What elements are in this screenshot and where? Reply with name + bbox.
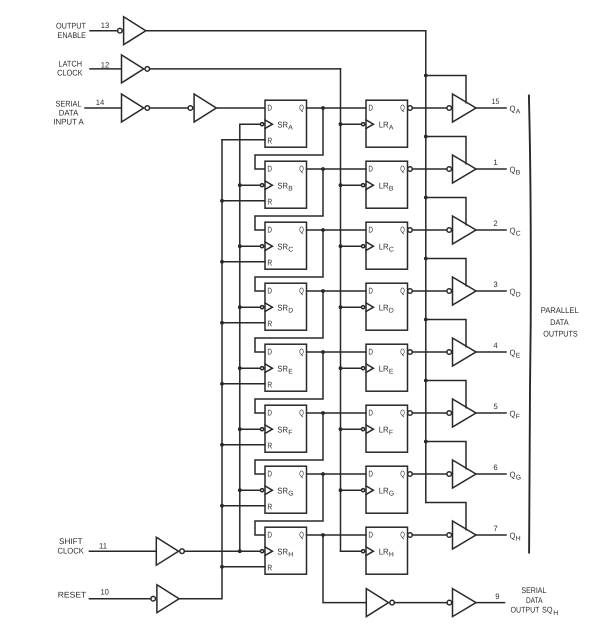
svg-text:SR: SR bbox=[277, 485, 288, 495]
wire clock bus to SRF clock bbox=[240, 428, 260, 430]
junction OE bus row E bbox=[424, 318, 428, 322]
node QH bbox=[510, 530, 521, 542]
svg-text:Q: Q bbox=[400, 286, 405, 296]
brace parallel data outputs bbox=[529, 96, 531, 553]
wire reset bus to SRA R bbox=[222, 139, 265, 141]
svg-text:OUTPUT: OUTPUT bbox=[511, 606, 540, 615]
node QA bbox=[510, 103, 521, 115]
wire OE enable to buffer U13 bbox=[426, 320, 466, 347]
junction latch bus row G bbox=[339, 488, 343, 492]
svg-text:Q: Q bbox=[299, 286, 304, 296]
junction OE bus row A bbox=[424, 74, 428, 78]
wire SRD Q to LRD D bbox=[307, 290, 367, 292]
junction latch bus row E bbox=[339, 366, 343, 370]
inverter U2 (latch clock) bbox=[122, 55, 150, 83]
wire LRD Q to buffer U12 bbox=[412, 290, 446, 292]
svg-text:D: D bbox=[516, 292, 521, 299]
pin 6 bbox=[493, 463, 497, 472]
svg-text:LR: LR bbox=[379, 363, 389, 373]
svg-text:E: E bbox=[389, 369, 394, 376]
wire reset bus to SRG R bbox=[222, 505, 265, 507]
svg-text:RESET: RESET bbox=[58, 590, 87, 599]
wire U4 output to SRA D bbox=[216, 107, 265, 109]
svg-text:LR: LR bbox=[379, 546, 389, 556]
svg-text:B: B bbox=[516, 170, 521, 177]
svg-text:Q: Q bbox=[400, 225, 405, 235]
wire OE enable to buffer U12 bbox=[426, 259, 466, 286]
svg-text:D: D bbox=[368, 286, 373, 296]
wire SRF Q to LRF D bbox=[307, 412, 367, 414]
flip-flop LRB bbox=[362, 161, 408, 208]
junction SRH Q node bbox=[321, 533, 325, 537]
svg-text:H: H bbox=[516, 536, 521, 543]
output bubble LRF Q bbox=[408, 411, 413, 416]
pin 1 bbox=[493, 158, 497, 167]
svg-text:14: 14 bbox=[96, 98, 105, 107]
junction latch bus row C bbox=[339, 244, 343, 248]
svg-text:A: A bbox=[516, 109, 521, 116]
wire QE output pin bbox=[476, 351, 506, 353]
wire OE enable to buffer U14 bbox=[426, 381, 466, 408]
output bubble LRE Q bbox=[408, 350, 413, 355]
svg-text:2: 2 bbox=[493, 219, 497, 228]
wire U3 to U4 bbox=[150, 107, 189, 109]
wire QA output pin bbox=[476, 107, 506, 109]
svg-text:H: H bbox=[553, 610, 558, 617]
wire QD output pin bbox=[476, 290, 506, 292]
wire latch bus to LRA clock bbox=[341, 123, 361, 125]
pin 2 bbox=[493, 219, 497, 228]
wire SRH Q to serial output bbox=[323, 535, 366, 603]
junction SRA Q node bbox=[321, 106, 325, 110]
junction clock bus row B bbox=[238, 183, 242, 187]
wire OE enable to buffer U11 bbox=[426, 198, 466, 225]
output bubble LRC Q bbox=[408, 228, 413, 233]
wire pin11 to U5 bbox=[89, 550, 156, 552]
svg-text:Q: Q bbox=[400, 164, 405, 174]
junction reset bus row H bbox=[220, 565, 224, 569]
svg-text:13: 13 bbox=[101, 21, 110, 30]
output bubble LRG Q bbox=[408, 472, 413, 477]
wire QH output pin bbox=[476, 534, 506, 536]
svg-text:C: C bbox=[288, 247, 293, 254]
svg-text:PARALLEL: PARALLEL bbox=[541, 306, 579, 315]
svg-text:D: D bbox=[389, 308, 394, 315]
svg-text:D: D bbox=[267, 530, 272, 540]
wire SRB Q to SRC D jog bbox=[255, 169, 323, 230]
label SERIAL DATA OUTPUT SQH bbox=[511, 586, 559, 617]
pin 9 bbox=[495, 592, 499, 601]
svg-text:D: D bbox=[368, 103, 373, 113]
flip-flop SRH bbox=[261, 527, 307, 574]
svg-text:D: D bbox=[368, 530, 373, 540]
wire U5 output to SRH clock bbox=[184, 550, 260, 552]
svg-text:9: 9 bbox=[495, 592, 499, 601]
wire U1 output to OE bus bbox=[146, 30, 426, 32]
pin 10 bbox=[100, 588, 109, 597]
wire OE bus vertical bbox=[425, 31, 427, 503]
svg-text:LR: LR bbox=[379, 180, 389, 190]
svg-text:SR: SR bbox=[277, 241, 288, 251]
svg-text:E: E bbox=[288, 369, 293, 376]
svg-text:D: D bbox=[368, 469, 373, 479]
wire QC output pin bbox=[476, 229, 506, 231]
junction reset bus row G bbox=[220, 504, 224, 508]
wire latch clock bus vertical bbox=[340, 69, 342, 551]
wire latch bus to LRE clock bbox=[341, 367, 361, 369]
flip-flop LRH bbox=[362, 527, 408, 574]
svg-text:C: C bbox=[516, 231, 521, 238]
flip-flop LRA bbox=[362, 100, 408, 147]
junction clock bus row E bbox=[238, 366, 242, 370]
svg-text:D: D bbox=[368, 347, 373, 357]
svg-text:D: D bbox=[267, 225, 272, 235]
junction clock bus row G bbox=[238, 488, 242, 492]
wire reset bus to SRB R bbox=[222, 200, 265, 202]
label PARALLEL DATA OUTPUTS bbox=[541, 306, 579, 338]
junction clock bus row C bbox=[238, 244, 242, 248]
pin 13 bbox=[101, 21, 110, 30]
svg-text:7: 7 bbox=[493, 524, 497, 533]
label RESET bbox=[58, 590, 87, 599]
junction reset bus row B bbox=[220, 199, 224, 203]
tri-state buffer U13 (QE) bbox=[447, 338, 476, 366]
flip-flop SRG bbox=[261, 466, 307, 513]
svg-text:Q: Q bbox=[299, 530, 304, 540]
pin 12 bbox=[101, 60, 110, 69]
svg-text:D: D bbox=[267, 408, 272, 418]
svg-text:DATA: DATA bbox=[550, 318, 569, 327]
svg-text:12: 12 bbox=[101, 60, 110, 69]
wire U6 output to reset bus bbox=[179, 140, 222, 599]
tri-state buffer U9 (QA) bbox=[447, 94, 476, 122]
junction SRF Q node bbox=[321, 411, 325, 415]
wire clock bus to SRB clock bbox=[240, 184, 260, 186]
wire QF output pin bbox=[476, 412, 506, 414]
flip-flop SRC bbox=[261, 222, 307, 269]
flip-flop LRG bbox=[362, 466, 408, 513]
svg-text:D: D bbox=[267, 164, 272, 174]
svg-text:H: H bbox=[389, 552, 394, 559]
svg-text:LR: LR bbox=[379, 119, 389, 129]
junction shift clock bus bbox=[238, 549, 242, 553]
junction clock bus row D bbox=[238, 305, 242, 309]
svg-text:G: G bbox=[288, 491, 293, 498]
svg-text:Q: Q bbox=[400, 469, 405, 479]
pin 4 bbox=[493, 341, 498, 350]
wire SRH Q to LRH D bbox=[307, 534, 367, 536]
flip-flop SRB bbox=[261, 161, 307, 208]
wire SRC Q to LRC D bbox=[307, 229, 367, 231]
junction SRB Q node bbox=[321, 167, 325, 171]
svg-text:A: A bbox=[288, 125, 293, 132]
wire SRG Q to LRG D bbox=[307, 473, 367, 475]
wire clock bus to SRC clock bbox=[240, 245, 260, 247]
pin 11 bbox=[99, 541, 107, 550]
svg-text:10: 10 bbox=[100, 588, 109, 597]
junction latch bus row B bbox=[339, 183, 343, 187]
svg-text:R: R bbox=[267, 440, 272, 450]
svg-text:D: D bbox=[267, 469, 272, 479]
svg-text:R: R bbox=[267, 379, 272, 389]
inverter U6 (reset) bbox=[151, 585, 179, 613]
svg-text:1: 1 bbox=[493, 158, 497, 167]
svg-text:R: R bbox=[267, 196, 272, 206]
pin 14 bbox=[96, 98, 105, 107]
junction SRC Q node bbox=[321, 228, 325, 232]
wire LRB Q to buffer U10 bbox=[412, 168, 446, 170]
output bubble LRB Q bbox=[408, 167, 413, 172]
wire reset bus to SRE R bbox=[222, 383, 265, 385]
label LATCH CLOCK bbox=[57, 59, 83, 77]
flip-flop LRE bbox=[362, 344, 408, 391]
svg-text:ENABLE: ENABLE bbox=[58, 31, 87, 40]
svg-text:LR: LR bbox=[379, 302, 389, 312]
svg-text:G: G bbox=[389, 491, 394, 498]
pin 15 bbox=[492, 97, 500, 106]
junction reset bus row E bbox=[220, 382, 224, 386]
svg-text:Q: Q bbox=[299, 347, 304, 357]
wire latch bus to LRB clock bbox=[341, 184, 361, 186]
tri-state buffer U12 (QD) bbox=[447, 277, 476, 305]
inverter U3 (serial data input) bbox=[122, 94, 150, 122]
svg-text:CLOCK: CLOCK bbox=[57, 69, 83, 78]
junction latch bus row F bbox=[339, 427, 343, 431]
svg-text:F: F bbox=[389, 430, 393, 437]
pin 5 bbox=[493, 402, 498, 411]
wire LRG Q to buffer U15 bbox=[412, 473, 446, 475]
wire SRC Q to SRD D jog bbox=[255, 230, 323, 291]
svg-text:R: R bbox=[267, 135, 272, 145]
svg-text:SR: SR bbox=[277, 363, 288, 373]
svg-text:SHIFT: SHIFT bbox=[59, 537, 83, 546]
svg-text:Q: Q bbox=[299, 469, 304, 479]
svg-text:LR: LR bbox=[379, 241, 389, 251]
node QF bbox=[510, 408, 520, 420]
wire reset bus to SRH R bbox=[222, 566, 265, 568]
wire pin13 to U1 bbox=[90, 30, 116, 32]
wire clock bus to SRA clock bbox=[240, 123, 260, 125]
svg-text:5: 5 bbox=[493, 402, 498, 411]
wire latch bus to LRF clock bbox=[341, 428, 361, 430]
svg-text:LR: LR bbox=[379, 424, 389, 434]
svg-text:D: D bbox=[368, 225, 373, 235]
svg-text:OUTPUTS: OUTPUTS bbox=[543, 329, 578, 338]
wire SRE Q to LRE D bbox=[307, 351, 367, 353]
svg-text:D: D bbox=[267, 103, 272, 113]
junction OE bus row C bbox=[424, 196, 428, 200]
svg-text:SERIAL: SERIAL bbox=[56, 99, 82, 108]
junction OE bus row G bbox=[424, 440, 428, 444]
svg-text:Q: Q bbox=[299, 103, 304, 113]
svg-text:LR: LR bbox=[379, 485, 389, 495]
wire QG output pin bbox=[476, 473, 506, 475]
junction OE bus row D bbox=[424, 257, 428, 261]
inverter U5 (shift clock) bbox=[156, 537, 184, 565]
node QB bbox=[510, 164, 521, 176]
svg-text:3: 3 bbox=[493, 280, 497, 289]
svg-text:D: D bbox=[368, 164, 373, 174]
label SERIAL DATA INPUT A bbox=[53, 99, 84, 126]
junction reset bus row F bbox=[220, 443, 224, 447]
svg-text:B: B bbox=[288, 186, 293, 193]
junction SRD Q node bbox=[321, 289, 325, 293]
junction latch bus row A bbox=[339, 122, 343, 126]
wire reset bus to SRD R bbox=[222, 322, 265, 324]
tri-state buffer U10 (QB) bbox=[447, 155, 476, 183]
wire latch bus to LRC clock bbox=[341, 245, 361, 247]
flip-flop LRF bbox=[362, 405, 408, 452]
wire U7 to U8 bbox=[394, 602, 446, 604]
wire reset bus to SRF R bbox=[222, 444, 265, 446]
wire SQH output pin bbox=[476, 602, 505, 604]
svg-text:15: 15 bbox=[492, 97, 500, 106]
svg-text:F: F bbox=[288, 430, 292, 437]
flip-flop SRD bbox=[261, 283, 307, 330]
svg-text:SR: SR bbox=[277, 180, 288, 190]
svg-text:R: R bbox=[267, 562, 272, 572]
wire pin12 to U2 bbox=[90, 68, 122, 70]
junction clock bus row F bbox=[238, 427, 242, 431]
wire LRF Q to buffer U14 bbox=[412, 412, 446, 414]
svg-text:SR: SR bbox=[277, 424, 288, 434]
junction reset bus row C bbox=[220, 260, 224, 264]
node QG bbox=[510, 469, 522, 481]
buffer U8 (serial output) bbox=[447, 589, 476, 617]
tri-state buffer U14 (QF) bbox=[447, 399, 476, 427]
junction OE bus row F bbox=[424, 379, 428, 383]
svg-text:SR: SR bbox=[277, 119, 288, 129]
svg-text:D: D bbox=[267, 347, 272, 357]
wire OE enable to buffer U10 bbox=[426, 137, 466, 164]
output bubble LRA Q bbox=[408, 106, 413, 111]
wire shift clock bus bbox=[239, 124, 241, 551]
wire OE enable to buffer U16 bbox=[426, 503, 466, 530]
flip-flop SRA bbox=[261, 100, 307, 147]
svg-text:4: 4 bbox=[493, 341, 498, 350]
output bubble LRD Q bbox=[408, 289, 413, 294]
svg-text:DATA: DATA bbox=[526, 596, 543, 605]
wire clock bus to SRG clock bbox=[240, 489, 260, 491]
svg-text:Q: Q bbox=[299, 408, 304, 418]
wire LRH Q to buffer U16 bbox=[412, 534, 446, 536]
svg-text:Q: Q bbox=[299, 225, 304, 235]
svg-text:Q: Q bbox=[400, 347, 405, 357]
wire pin14 to U3 bbox=[85, 107, 122, 109]
svg-text:SR: SR bbox=[277, 546, 288, 556]
flip-flop SRE bbox=[261, 344, 307, 391]
svg-text:R: R bbox=[267, 501, 272, 511]
flip-flop SRF bbox=[261, 405, 307, 452]
svg-text:D: D bbox=[267, 286, 272, 296]
wire SRF Q to SRG D jog bbox=[255, 413, 323, 474]
svg-text:R: R bbox=[267, 318, 272, 328]
wire OE enable to buffer U9 bbox=[426, 76, 466, 103]
junction OE bus row B bbox=[424, 135, 428, 139]
wire pin10 to U6 bbox=[89, 598, 150, 600]
svg-text:OUTPUT: OUTPUT bbox=[56, 22, 86, 31]
label OUTPUT ENABLE bbox=[56, 22, 86, 41]
svg-text:Q: Q bbox=[400, 103, 405, 113]
wire clock bus to SRD clock bbox=[240, 306, 260, 308]
wire SRB Q to LRB D bbox=[307, 168, 367, 170]
inverter U1 (output enable) bbox=[118, 17, 146, 45]
output bubble LRH Q bbox=[408, 533, 413, 538]
wire QB output pin bbox=[476, 168, 506, 170]
svg-text:D: D bbox=[288, 308, 293, 315]
wire latch bus to LRD clock bbox=[341, 306, 361, 308]
svg-text:C: C bbox=[389, 247, 394, 254]
node QC bbox=[510, 225, 521, 237]
wire SRG Q to SRH D jog bbox=[255, 474, 323, 535]
svg-text:INPUT A: INPUT A bbox=[53, 117, 84, 126]
svg-text:Q: Q bbox=[400, 408, 405, 418]
label SHIFT CLOCK bbox=[57, 537, 84, 555]
svg-text:D: D bbox=[368, 408, 373, 418]
wire latch bus to LRH clock bbox=[341, 550, 361, 552]
svg-text:Q: Q bbox=[400, 530, 405, 540]
tri-state buffer U11 (QC) bbox=[447, 216, 476, 244]
wire LRE Q to buffer U13 bbox=[412, 351, 446, 353]
pin 3 bbox=[493, 280, 497, 289]
buffer U4 (serial data input) bbox=[188, 94, 216, 122]
svg-text:R: R bbox=[267, 257, 272, 267]
wire SRA Q to SRB D jog bbox=[255, 108, 323, 169]
wire SRA Q to LRA D bbox=[307, 107, 367, 109]
svg-text:LATCH: LATCH bbox=[59, 59, 83, 68]
flip-flop LRC bbox=[362, 222, 408, 269]
wire latch bus to LRG clock bbox=[341, 489, 361, 491]
svg-text:6: 6 bbox=[493, 463, 497, 472]
svg-text:H: H bbox=[288, 552, 293, 559]
svg-text:DATA: DATA bbox=[59, 108, 79, 117]
svg-text:CLOCK: CLOCK bbox=[57, 546, 84, 555]
tri-state buffer U15 (QG) bbox=[447, 460, 476, 488]
junction latch bus row D bbox=[339, 305, 343, 309]
node QD bbox=[510, 286, 521, 298]
flip-flop LRD bbox=[362, 283, 408, 330]
wire U2 output to latch bus bbox=[150, 68, 341, 70]
svg-text:B: B bbox=[389, 186, 394, 193]
svg-text:SQ: SQ bbox=[542, 606, 553, 615]
inverter U7 (serial output) bbox=[366, 589, 394, 617]
tri-state buffer U16 (QH) bbox=[447, 521, 476, 549]
wire SRD Q to SRE D jog bbox=[255, 291, 323, 352]
wire OE enable to buffer U15 bbox=[426, 442, 466, 469]
svg-text:G: G bbox=[516, 475, 521, 482]
junction SRE Q node bbox=[321, 350, 325, 354]
svg-text:SERIAL: SERIAL bbox=[521, 586, 546, 595]
svg-text:Q: Q bbox=[299, 164, 304, 174]
node QE bbox=[510, 347, 521, 359]
wire SRE Q to SRF D jog bbox=[255, 352, 323, 413]
wire LRA Q to buffer U9 bbox=[412, 107, 446, 109]
wire LRC Q to buffer U11 bbox=[412, 229, 446, 231]
svg-text:A: A bbox=[389, 125, 394, 132]
svg-text:11: 11 bbox=[99, 541, 107, 550]
junction SRG Q node bbox=[321, 472, 325, 476]
svg-text:SR: SR bbox=[277, 302, 288, 312]
junction reset bus row D bbox=[220, 321, 224, 325]
wire reset bus to SRC R bbox=[222, 261, 265, 263]
svg-text:E: E bbox=[516, 353, 521, 360]
pin 7 bbox=[493, 524, 497, 533]
svg-text:F: F bbox=[516, 414, 520, 421]
wire clock bus to SRE clock bbox=[240, 367, 260, 369]
